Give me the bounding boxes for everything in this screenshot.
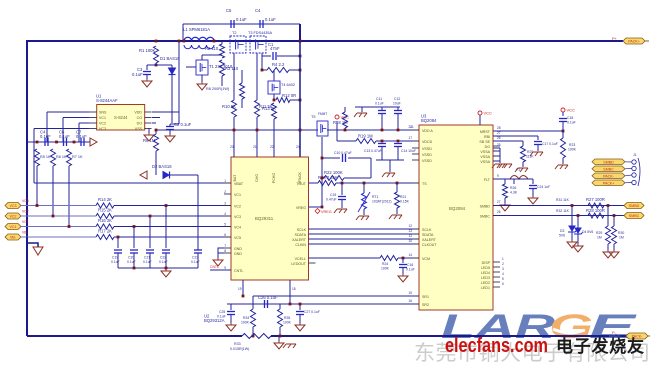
- label R30: [618, 231, 624, 235]
- wire vertical bus-to-rail right: [299, 24, 301, 41]
- label C21: [144, 256, 150, 260]
- junction tap row x74: [73, 141, 76, 144]
- wire T3 source down: [256, 53, 258, 100]
- svg-text:C13 0.47uF: C13 0.47uF: [364, 149, 382, 153]
- connector J2 pin VC1: [5, 224, 21, 230]
- resistor R5 1K: [35, 149, 40, 166]
- label R21v: [400, 195, 406, 199]
- connector J1 circle 4: [632, 180, 636, 184]
- svg-text:C24 1uF: C24 1uF: [537, 185, 550, 189]
- label C5: [226, 8, 232, 13]
- svg-text:VREG: VREG: [321, 210, 332, 214]
- label R24 value: [381, 267, 390, 271]
- junction cap C22 tap: [165, 204, 168, 207]
- resistor R8 200R(1W): [240, 83, 245, 99]
- label T4: [281, 83, 295, 87]
- wire C12 bot stub: [397, 114, 399, 130]
- diode D2 BAS16: [163, 172, 170, 179]
- U3 left pins: [412, 130, 419, 304]
- wire R4 right: [289, 69, 300, 71]
- label R31: [556, 198, 570, 202]
- resistor R30 1M: [612, 226, 617, 244]
- label F1: [516, 168, 520, 172]
- wire C3 top: [146, 65, 148, 70]
- junction C16 tap: [402, 257, 405, 260]
- svg-text:LED3: LED3: [481, 276, 490, 280]
- label R16: [98, 218, 112, 223]
- pin number U3L 13: [408, 229, 412, 233]
- wire C21b top: [532, 179, 534, 184]
- svg-text:0.1uF: 0.1uF: [217, 315, 226, 319]
- ground under U1 VSS: [144, 133, 154, 141]
- svg-text:C11: C11: [376, 97, 382, 101]
- connector J1 stub 4: [625, 182, 632, 184]
- wire SBSE row: [493, 140, 523, 142]
- svg-text:VC2: VC2: [234, 205, 241, 209]
- junction C1 node: [299, 55, 302, 58]
- wire C21 stub: [149, 253, 151, 268]
- svg-text:24: 24: [296, 145, 300, 149]
- pin number U3L 12: [408, 224, 412, 228]
- capacitor C2 0.1uF: [166, 127, 174, 130]
- svg-text:100K: 100K: [568, 148, 577, 152]
- svg-text:D3: D3: [560, 229, 564, 233]
- U2 pin GND1: [234, 247, 242, 251]
- label R21v value: [400, 200, 410, 204]
- junction R34 rail: [252, 335, 255, 338]
- svg-text:BQ2084: BQ2084: [449, 206, 466, 211]
- U3 pin XALERT: [422, 238, 437, 242]
- wire claw branch B: [389, 160, 391, 172]
- svg-text:SMBC: SMBC: [603, 167, 614, 171]
- ground R26: [500, 203, 510, 211]
- svg-text:8: 8: [224, 249, 226, 253]
- wire VC1 run: [63, 117, 90, 119]
- svg-text:R9 1M: R9 1M: [143, 138, 156, 143]
- wire SMBC row: [493, 215, 624, 217]
- svg-text:R6 1K: R6 1K: [56, 155, 67, 159]
- label C21 value: [143, 260, 152, 264]
- wire C19 stub: [117, 253, 119, 268]
- svg-text:P+: P+: [612, 36, 618, 41]
- svg-text:R8 200R(1W): R8 200R(1W): [206, 87, 230, 91]
- wire U2 GND bend: [218, 248, 224, 258]
- svg-text:CNTL: CNTL: [234, 269, 243, 273]
- pin number U3R 28: [497, 126, 501, 130]
- label C27: [304, 310, 320, 314]
- wire TOUT a: [309, 182, 319, 184]
- net P+ label: [612, 36, 618, 41]
- U3 pin SMBC: [480, 215, 491, 219]
- svg-text:VSS: VSS: [135, 127, 143, 131]
- pin number U3L 21: [408, 125, 412, 129]
- junction C12 bus130: [397, 129, 400, 132]
- svg-text:C22: C22: [160, 256, 166, 260]
- svg-text:VC3: VC3: [234, 215, 241, 219]
- svg-text:R4 2.2: R4 2.2: [272, 62, 285, 67]
- svg-text:3: 3: [502, 267, 504, 271]
- ground RT1: [356, 216, 369, 220]
- label U3 refdes: [421, 114, 427, 119]
- U2 pin GND2: [234, 252, 242, 256]
- svg-text:R24: R24: [382, 262, 388, 266]
- wire row VC1 b: [114, 226, 231, 228]
- svg-text:15: 15: [408, 291, 412, 295]
- label C4 tap: [40, 130, 46, 135]
- svg-text:elecfans.com: elecfans.com: [445, 335, 548, 357]
- pin number U2L 2: [224, 190, 226, 194]
- svg-text:R34: R34: [243, 316, 249, 320]
- resistor R23 100K: [561, 138, 566, 158]
- svg-text:CLKIN: CLKIN: [295, 243, 306, 247]
- connector J2 pin VC3: [5, 203, 21, 209]
- wire VBAT drop: [33, 142, 35, 183]
- label R22: [324, 170, 343, 175]
- svg-text:SMBD: SMBD: [603, 160, 614, 164]
- wire C13 bot: [381, 147, 383, 160]
- label R18: [333, 120, 348, 125]
- thermistor RT1 arrow: [358, 192, 370, 212]
- U3 pin TS: [422, 182, 427, 186]
- U3 pin SDATA: [422, 233, 434, 237]
- svg-text:C20: C20: [128, 256, 134, 260]
- U1 pin VSS: [135, 127, 143, 131]
- ground claw C11 bus: [354, 113, 367, 117]
- wire R10 bottom to bus: [233, 117, 235, 157]
- svg-text:R19 1M: R19 1M: [358, 134, 373, 139]
- svg-text:S-8244: S-8244: [114, 115, 128, 120]
- svg-text:PACK+: PACK+: [628, 40, 640, 44]
- svg-text:T2: T2: [232, 31, 236, 35]
- wire T1 drain to R3: [202, 54, 222, 56]
- ground C16: [398, 274, 408, 282]
- U3 pin VCM: [422, 257, 430, 261]
- wire row158 b: [348, 157, 371, 159]
- resistor R6 1K: [51, 149, 56, 166]
- label C16 value: [406, 268, 415, 272]
- pin number U2B 18: [292, 287, 296, 291]
- wire T1 gate: [186, 66, 196, 68]
- wire vertical bus-to-rail left: [182, 24, 184, 41]
- junction tap row x37: [36, 141, 39, 144]
- svg-text:R30: R30: [618, 231, 624, 235]
- svg-text:5: 5: [502, 277, 504, 281]
- resistor R4 2.2: [267, 62, 289, 73]
- capacitor C20 0.1uF: [130, 250, 138, 253]
- svg-text:VSSA: VSSA: [480, 160, 490, 164]
- wire R21 drop: [396, 183, 398, 192]
- svg-text:VC3: VC3: [99, 127, 106, 131]
- svg-text:VSSD: VSSD: [422, 159, 432, 163]
- svg-text:T4 6402: T4 6402: [281, 83, 295, 87]
- svg-text:GND: GND: [234, 252, 242, 256]
- wire C27 top: [299, 304, 301, 310]
- wire C2 bottom: [169, 130, 171, 134]
- svg-text:VC1: VC1: [22, 220, 29, 224]
- svg-text:F1: F1: [516, 168, 520, 172]
- wire VBAT row: [34, 182, 231, 184]
- svg-text:R28 100R: R28 100R: [586, 208, 605, 213]
- label D4: [582, 230, 593, 234]
- svg-text:R32 11K: R32 11K: [556, 209, 570, 213]
- svg-text:MRST: MRST: [480, 130, 491, 134]
- svg-text:1: 1: [224, 179, 226, 183]
- label C15: [330, 193, 336, 197]
- label C14: [401, 149, 416, 153]
- U1 pin VDD: [134, 111, 142, 115]
- wire left border vertical: [26, 40, 28, 336]
- wire R9 bottom: [155, 151, 157, 175]
- wire XALERT row: [309, 238, 420, 240]
- junction gnd bus: [165, 267, 168, 270]
- junction cap C19 tap: [117, 236, 120, 239]
- svg-text:CNTL: CNTL: [210, 265, 219, 269]
- junction mid bus left end: [155, 129, 158, 132]
- wire row VC2 b: [114, 215, 231, 217]
- label C7: [76, 130, 82, 135]
- wire R7 drop: [68, 166, 70, 227]
- svg-text:PCHG: PCHG: [272, 173, 276, 184]
- svg-text:TOUT: TOUT: [296, 182, 307, 186]
- svg-text:10: 10: [408, 239, 412, 243]
- net VC2: [22, 210, 29, 214]
- U3 pin LED2: [481, 281, 490, 285]
- svg-text:1M: 1M: [619, 236, 624, 240]
- ground R30: [609, 250, 619, 258]
- svg-text:25: 25: [497, 143, 501, 147]
- svg-text:R21: R21: [400, 195, 406, 199]
- svg-text:SMBD: SMBD: [480, 205, 491, 209]
- wire T1 source down: [201, 75, 203, 82]
- svg-text:VC2: VC2: [10, 215, 17, 219]
- label C6: [59, 130, 65, 135]
- svg-text:R18 1M: R18 1M: [333, 120, 348, 125]
- svg-text:0.15K: 0.15K: [400, 200, 410, 204]
- wire C25 gnd: [230, 315, 232, 323]
- label D2: [152, 164, 172, 169]
- wire VC3 drop: [33, 129, 35, 143]
- wire R26 top: [504, 179, 506, 184]
- U1 name: [114, 115, 128, 120]
- wire DO run: [152, 122, 156, 124]
- capacitor C6 0.1uF: [64, 138, 67, 146]
- pin number U2L 6: [224, 233, 226, 237]
- svg-text:C25: C25: [219, 310, 225, 314]
- wire FLT down1: [513, 179, 515, 184]
- capacitor C14 10uF: [394, 144, 402, 147]
- wire C22 stub: [165, 253, 167, 268]
- pin number 24: [296, 145, 300, 149]
- wire R8 bottom: [241, 99, 243, 108]
- svg-text:0.1uF: 0.1uF: [265, 17, 276, 22]
- svg-text:VCC: VCC: [567, 108, 576, 113]
- svg-text:LED4: LED4: [481, 271, 490, 275]
- label C18 value: [567, 121, 576, 125]
- U3 pin SMBD: [480, 205, 491, 209]
- wire C11 bus: [355, 106, 400, 108]
- pin number U3L 16: [408, 299, 412, 303]
- wire SNS drop: [46, 112, 48, 142]
- resistor R14 2K: [96, 203, 114, 208]
- svg-text:SDATA: SDATA: [295, 233, 307, 237]
- wire RBI row: [493, 135, 538, 137]
- svg-text:4: 4: [502, 272, 504, 276]
- svg-text:VCM: VCM: [422, 257, 430, 261]
- svg-text:R11 5K: R11 5K: [259, 104, 273, 109]
- wire VC3 run: [34, 128, 90, 130]
- wire FLT stub: [493, 178, 510, 180]
- U3 pin SR1: [422, 295, 429, 299]
- label C11: [376, 97, 382, 101]
- resistor R7 1K: [67, 149, 72, 166]
- wire VC1 drop: [62, 118, 64, 143]
- svg-text:26: 26: [497, 136, 501, 140]
- junction pin21 top: [256, 129, 259, 132]
- connector J1 stub 2: [625, 168, 632, 170]
- label R35 value: [283, 321, 292, 325]
- wire claw branch: [355, 107, 362, 112]
- svg-text:R16 2K: R16 2K: [98, 218, 112, 223]
- svg-text:13: 13: [408, 229, 412, 233]
- label R9: [143, 138, 156, 143]
- U1 pin VC2: [99, 122, 106, 126]
- junction T3 drain row: [261, 69, 264, 72]
- wire R11 bottom to bus: [256, 117, 258, 157]
- connector J1 circle 1: [632, 160, 636, 164]
- label R23 value: [568, 148, 577, 152]
- wire VPACK vertical: [299, 41, 301, 157]
- wire VDD to rail vertical: [178, 41, 180, 112]
- wire C27 gnd: [299, 315, 301, 323]
- U3 pin FLT: [484, 178, 491, 182]
- svg-text:CLKOUT: CLKOUT: [422, 243, 437, 247]
- connector J1 stub 1: [625, 161, 632, 163]
- resistor R24 100K: [380, 256, 398, 261]
- capacitor C16 0.1uF: [399, 265, 407, 268]
- wire row158 drop: [370, 158, 372, 178]
- wire R35 bot: [279, 327, 281, 336]
- wire VREG stub: [309, 206, 323, 208]
- resistor R27 100R: [588, 203, 604, 208]
- junction R23 node: [562, 130, 565, 133]
- capacitor C10 0.47uF: [343, 154, 346, 162]
- label C2: [174, 122, 192, 127]
- pin number U3LED 4: [502, 272, 504, 276]
- wire R9 top: [155, 130, 157, 134]
- svg-text:SMBC: SMBC: [480, 215, 491, 219]
- U2 pin CLKIN: [295, 243, 306, 247]
- svg-text:VBAT: VBAT: [234, 182, 244, 186]
- U3 pin SR2: [422, 303, 429, 307]
- label R28: [586, 208, 605, 213]
- junction T4/R12: [273, 99, 276, 102]
- ground caps bus: [161, 269, 171, 277]
- capacitor C3 0.1uF: [132, 72, 151, 78]
- diode D3 5V6: [568, 226, 577, 232]
- wire FLT across: [505, 178, 533, 180]
- connector P4 SMBC: [592, 166, 625, 172]
- junction C13 row: [381, 140, 384, 143]
- capacitor C22 0.1uF: [162, 250, 170, 253]
- wire VCC stub right: [562, 112, 564, 116]
- svg-text:VSSD: VSSD: [422, 147, 432, 151]
- junction R5 row: [36, 204, 39, 207]
- svg-text:100K: 100K: [241, 321, 250, 325]
- capacitor C15 0.47uF: [338, 197, 346, 200]
- svg-text:DISP: DISP: [482, 261, 491, 265]
- resistor R21 0.1K: [395, 192, 400, 208]
- pin number U3R 26: [497, 136, 501, 140]
- U3 pin DG: [485, 145, 491, 149]
- svg-text:0.1uF: 0.1uF: [567, 121, 576, 125]
- label R23: [569, 143, 575, 147]
- watermark elecfans chinese: [556, 336, 644, 356]
- label C19 value: [111, 260, 120, 264]
- label R7: [72, 155, 83, 159]
- ground R21: [389, 215, 402, 219]
- label U2 refdes: [204, 314, 210, 319]
- junction R18 bus130: [344, 129, 347, 132]
- svg-text:27: 27: [497, 200, 501, 204]
- ground rail B: [283, 344, 296, 348]
- pin number U2L 3: [224, 202, 226, 206]
- wire D3 gnd: [571, 232, 573, 240]
- net arrow VB- down: [33, 247, 43, 255]
- wire R34 top: [252, 296, 254, 309]
- wire R23 top: [562, 131, 564, 138]
- svg-text:18: 18: [292, 287, 296, 291]
- wire R26 gnd: [504, 198, 506, 203]
- label C1: [268, 42, 274, 47]
- label R19 row: [358, 134, 373, 139]
- wire TOUT b: [336, 182, 419, 184]
- wire VCC row b: [376, 140, 419, 142]
- wire C21b gnd: [532, 189, 534, 196]
- wire VB- ground bend: [27, 237, 38, 247]
- label C23: [192, 256, 198, 260]
- svg-text:VC1: VC1: [99, 116, 106, 120]
- power VCC U3 top: [478, 111, 492, 116]
- wire C20 stub: [133, 253, 135, 268]
- label R33: [234, 342, 241, 346]
- label R20: [318, 175, 338, 180]
- svg-text:C1: C1: [268, 42, 274, 47]
- U3 pin SCLK: [422, 228, 432, 232]
- label C26: [258, 295, 278, 300]
- wire CO stub: [152, 117, 160, 119]
- svg-text:2: 2: [502, 262, 504, 266]
- wire bottom P- rail right: [271, 335, 626, 337]
- U1 pin VC1: [99, 116, 106, 120]
- ground under T1: [197, 82, 207, 90]
- svg-text:19: 19: [238, 287, 242, 291]
- svg-text:22: 22: [270, 145, 274, 149]
- label R29 value: [597, 236, 602, 240]
- pin number U3R 27b: [497, 200, 501, 204]
- wire D2 to C23: [170, 174, 198, 176]
- resistor R19 1M row: [356, 139, 376, 144]
- net arrow tap row: [90, 138, 97, 146]
- svg-text:BQ2084: BQ2084: [421, 118, 437, 123]
- ground under C2: [165, 134, 175, 142]
- junction RT1 tap: [363, 182, 366, 185]
- U3 pin LED5: [481, 266, 490, 270]
- wire row VB- b: [114, 236, 231, 238]
- U2 pin VCELL: [295, 257, 306, 261]
- label U2 part: [204, 318, 225, 323]
- wire C16 drop: [402, 258, 404, 263]
- label C16: [407, 263, 413, 267]
